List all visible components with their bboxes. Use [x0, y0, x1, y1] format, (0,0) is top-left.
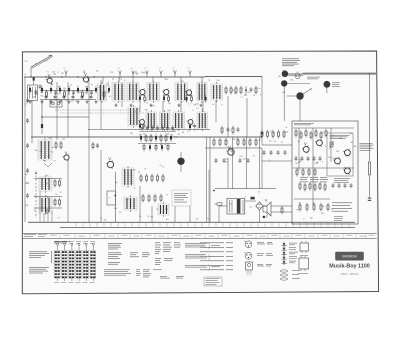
svg-text:2k2: 2k2 [62, 139, 65, 141]
resistor R40 [213, 138, 215, 147]
legend band entries [64, 235, 375, 236]
transistor T2 flag [84, 73, 86, 76]
detector parts cluster [124, 195, 137, 212]
resistor R83 [320, 203, 322, 212]
wire can lead up [180, 77, 182, 83]
resistor R52 [54, 198, 56, 207]
resistor R50 [54, 179, 56, 188]
svg-text:5n: 5n [131, 175, 133, 177]
wire twin vertical [206, 137, 209, 222]
svg-text:T4: T4 [187, 131, 189, 133]
transistor pinout top view 1 [244, 241, 252, 248]
wire vertical [88, 77, 90, 137]
transistor T6 [138, 118, 144, 125]
svg-text:0,5: 0,5 [147, 216, 149, 218]
svg-text:T4: T4 [156, 209, 158, 211]
svg-text:8p: 8p [139, 134, 141, 136]
resistor R11a [145, 134, 147, 143]
AM row lower labels [130, 130, 196, 137]
svg-text:9,1: 9,1 [131, 68, 133, 70]
wire bottom bus [28, 221, 355, 223]
diode D12 [86, 86, 88, 94]
node bus junction [77, 76, 78, 77]
resistor R20 [225, 86, 227, 95]
wire can lead up [102, 77, 104, 83]
amp wire h1 [293, 167, 354, 169]
transistor pinout top view 2 [244, 252, 252, 259]
filled dot small [261, 132, 263, 134]
svg-text:0,5: 0,5 [135, 111, 137, 113]
parts list text left 2 [29, 267, 49, 273]
wire transformer mesh v2 [246, 137, 248, 189]
electrolytic capacitor blob [177, 152, 184, 172]
resistor R12 [82, 90, 84, 99]
transistor T11 [315, 139, 322, 147]
svg-text:10k: 10k [58, 87, 61, 89]
resistor R30 [140, 174, 142, 183]
switch bank caption [54, 241, 70, 243]
svg-text:33k: 33k [130, 133, 133, 135]
svg-text:4k7: 4k7 [350, 142, 353, 144]
relay box [107, 191, 115, 205]
resistor R81 [306, 203, 308, 212]
svg-text:0,1: 0,1 [274, 141, 276, 143]
svg-text:L7: L7 [131, 181, 133, 183]
bus tap fork [145, 68, 149, 77]
top bus labels [52, 71, 175, 76]
svg-text:33k: 33k [114, 208, 117, 210]
label top-left small [25, 61, 28, 63]
switch box with circles [50, 100, 62, 107]
resistor R61 [300, 131, 302, 140]
resistor R41 [219, 138, 221, 147]
svg-text:0,1: 0,1 [60, 90, 62, 92]
svg-text:1k: 1k [55, 194, 57, 196]
resistor R51 [59, 179, 61, 188]
sub-box text [330, 135, 350, 139]
wire vertical [162, 101, 164, 112]
junction dot x115 [114, 195, 116, 197]
wire main top bus [24, 76, 205, 78]
svg-text:33k: 33k [63, 88, 66, 90]
IF transformer Fi10 [173, 110, 185, 131]
output module sub-box [327, 133, 353, 176]
svg-text:5n: 5n [344, 167, 346, 169]
svg-text:1k: 1k [75, 100, 77, 102]
resistor R33 [157, 174, 159, 183]
diode D4 [50, 86, 52, 94]
wire vertical to bus [227, 158, 229, 188]
transistor T10 [302, 145, 309, 153]
svg-text:n5: n5 [230, 204, 232, 206]
svg-text:2k2: 2k2 [247, 92, 250, 94]
amp labels [298, 131, 357, 169]
svg-text:R12: R12 [232, 90, 235, 92]
parts text col 1c [108, 262, 120, 265]
parts text col 3 [155, 243, 181, 254]
parts list heading left [29, 252, 49, 258]
capacitor left edge [26, 168, 29, 173]
svg-text:5n: 5n [237, 139, 239, 141]
svg-text:R12: R12 [40, 96, 43, 98]
svg-text:8p: 8p [52, 147, 54, 149]
svg-text:R12: R12 [336, 151, 339, 153]
pinout 2 label [257, 254, 273, 256]
capacitor CT1 [143, 123, 146, 128]
svg-text:4k7: 4k7 [166, 219, 169, 221]
front end link wire top [40, 90, 96, 92]
AM oscillator coil pack [38, 138, 52, 162]
ground [67, 100, 70, 103]
pinout 1 label [257, 242, 273, 244]
IF transformer Fi5 [175, 81, 188, 104]
boxed note [204, 277, 222, 286]
resistor R31 [146, 174, 148, 183]
svg-text:47: 47 [148, 140, 150, 142]
capacitor C31 [223, 158, 226, 163]
capacitor C33 [247, 158, 250, 163]
wire vertical [202, 101, 204, 112]
resistor R91 [267, 130, 269, 139]
amp wire v1 [298, 128, 300, 170]
diode D8 [68, 86, 70, 94]
svg-text:9,1: 9,1 [173, 68, 175, 70]
resistor R94 [283, 130, 285, 139]
junction y117 [41, 116, 43, 118]
wire vertical [246, 98, 248, 137]
capacitor C30 [215, 158, 218, 163]
resistor RT3 [168, 95, 170, 103]
wire jack link [287, 88, 327, 96]
svg-text:0,5: 0,5 [139, 216, 141, 218]
resistor R64 [315, 129, 317, 138]
capacitor CT2 [193, 124, 196, 129]
svg-text:47: 47 [162, 212, 164, 214]
resistor R43 [237, 138, 239, 147]
resistor R38 [160, 194, 162, 203]
svg-text:10k: 10k [107, 84, 110, 86]
diode symbols legend [282, 242, 288, 266]
ground [40, 100, 43, 103]
ground [199, 104, 202, 107]
right if labels [232, 88, 262, 99]
svg-text:C34: C34 [195, 104, 198, 106]
svg-text:8p: 8p [322, 132, 324, 134]
wire horizontal y117 [42, 116, 89, 118]
svg-text:4k7: 4k7 [96, 71, 99, 73]
dashed tuning line [35, 172, 37, 218]
resistor R53 [59, 198, 61, 207]
thermistor [329, 141, 334, 149]
wire vertical to bus [151, 206, 153, 222]
resistor R72 [309, 182, 311, 191]
svg-text:R12: R12 [152, 106, 155, 108]
wire AM row bus [120, 129, 210, 131]
wire vertical to bus [88, 137, 90, 222]
wire vertical [121, 101, 123, 107]
svg-text:T4: T4 [265, 201, 267, 203]
wire can lead up [132, 77, 134, 83]
label terminal A [25, 73, 27, 76]
parts row above transformer [221, 126, 240, 135]
label T1 [47, 72, 49, 74]
wire left edge vertical [24, 77, 26, 222]
amp mid row labels [296, 159, 324, 165]
bracket notes 3 [185, 265, 220, 271]
wire right margin vertical [369, 73, 371, 197]
svg-text:8p: 8p [138, 171, 140, 173]
capacitor C51 [270, 150, 273, 155]
svg-text:68: 68 [65, 100, 67, 102]
wire transformer mesh h [215, 188, 276, 190]
wire top bus right section [287, 73, 376, 75]
ferrite rod coil box [28, 85, 38, 101]
svg-text:10 m: 10 m [44, 61, 49, 63]
mains transformer [227, 198, 245, 214]
transistor T2 AF107 [82, 76, 89, 84]
transistor T8 flag [109, 158, 111, 161]
svg-text:C34: C34 [216, 80, 219, 82]
small parts row mid [92, 142, 99, 150]
transistor T7 [187, 118, 193, 125]
ground [76, 100, 79, 103]
resistor R12a [150, 134, 152, 143]
wire vertical to bus [100, 150, 102, 222]
resistor RT2 [163, 94, 165, 102]
label am range [25, 205, 28, 207]
svg-text:0,1: 0,1 [173, 130, 175, 132]
IF transformer Fi11 [197, 110, 208, 131]
svg-text:33k: 33k [33, 96, 36, 98]
svg-text:9,1: 9,1 [188, 68, 190, 70]
bracket line [51, 251, 53, 263]
resistor R73 [314, 183, 316, 192]
wire detector row 2 [139, 131, 176, 133]
IF transformer Fi2 [112, 81, 125, 104]
tuner wire 3 [34, 207, 62, 209]
svg-text:n5: n5 [225, 141, 227, 143]
resistor R23 [240, 86, 242, 95]
svg-text:L7: L7 [57, 72, 59, 74]
capacitor C15 [90, 90, 93, 95]
svg-text:Musik-Boy 1100: Musik-Boy 1100 [329, 264, 369, 270]
svg-text:0,5: 0,5 [119, 212, 121, 214]
node antenna input dot [30, 76, 31, 77]
resistor RD2 [155, 143, 157, 151]
resistor R14a [160, 134, 162, 143]
power transistor package [246, 262, 253, 276]
svg-text:33k: 33k [339, 138, 342, 140]
svg-text:33k: 33k [322, 206, 325, 208]
detector row labels [139, 133, 180, 147]
wire vertical to bus [139, 186, 141, 222]
diode D2 [41, 86, 43, 94]
resistor R46 [255, 138, 257, 147]
wire vertical [261, 76, 263, 145]
resistor RD3 [161, 143, 163, 151]
bus tap fork [64, 68, 68, 77]
ground [114, 104, 117, 107]
capacitor left edge [26, 193, 29, 198]
svg-text:L1: L1 [25, 104, 27, 106]
transistor T14 output [343, 167, 350, 175]
switch bank gridlines [53, 251, 96, 276]
transistor T3 [138, 88, 145, 96]
tone control block [158, 202, 169, 217]
svg-text:220: 220 [111, 72, 114, 74]
top right text block [282, 59, 300, 67]
capacitor CA1 [301, 156, 304, 161]
wire af feed [262, 144, 292, 146]
svg-text:L7: L7 [234, 93, 236, 95]
capacitor CD0 [141, 126, 144, 131]
svg-text:8p: 8p [169, 103, 171, 105]
amp internal top rail [293, 127, 354, 129]
IF transformer Fi3 [127, 81, 139, 104]
svg-text:T2: T2 [83, 71, 85, 73]
wire vertical to bus [209, 137, 211, 222]
resistor R69 [308, 168, 310, 177]
transistor T12 driver [343, 149, 350, 157]
diode D14 [95, 86, 97, 94]
svg-text:C34: C34 [243, 159, 246, 161]
af feed labels [269, 127, 289, 162]
resistor RD4 [167, 143, 169, 151]
IF transformer Fi4 [147, 81, 160, 104]
transistor T4 [162, 88, 169, 96]
diode D10 [77, 86, 79, 94]
capacitor C41 [338, 183, 341, 188]
svg-text:0,1: 0,1 [112, 79, 114, 81]
transistor T15 [62, 154, 69, 162]
svg-text:A1: A1 [35, 63, 37, 66]
transistor T5 [185, 89, 192, 97]
svg-text:8p: 8p [48, 155, 50, 157]
bottom right parts row [281, 206, 283, 215]
resistor R80 [299, 203, 301, 212]
wire detector row [138, 143, 176, 145]
bus labels [100, 216, 208, 222]
ground [129, 104, 132, 107]
svg-text:302: 302 [25, 61, 28, 63]
capacitor C3 [35, 90, 38, 95]
diode labels [289, 243, 298, 263]
wire vertical [56, 82, 58, 140]
fuse [214, 203, 222, 205]
jack labels block 2 [332, 83, 340, 87]
wire vertical [180, 101, 182, 112]
capacitor left edge [26, 143, 29, 148]
node bus junction [61, 76, 62, 77]
wire can lead up [201, 77, 203, 83]
resistor R34 [162, 174, 164, 183]
svg-text:(2900 · 305.00): (2900 · 305.00) [341, 272, 359, 276]
svg-text:5n: 5n [345, 155, 347, 157]
svg-text:L7: L7 [51, 90, 53, 92]
jack labels block 1 [307, 77, 320, 79]
right margin text block [360, 143, 374, 151]
svg-text:2k2: 2k2 [286, 131, 289, 133]
svg-text:2k2: 2k2 [104, 220, 107, 222]
capacitor CA3 [313, 156, 316, 161]
switch wafer S3 [69, 242, 75, 279]
resistor R13a [155, 134, 157, 142]
svg-text:1k: 1k [244, 95, 246, 97]
pickup jack open circle [295, 74, 300, 79]
wire down from jacks [284, 87, 300, 121]
wire vertical to bus [189, 206, 191, 222]
voltage table [130, 253, 150, 258]
svg-text:0,1: 0,1 [124, 80, 126, 82]
svg-text:1k: 1k [100, 218, 102, 220]
capacitor C7 [54, 90, 57, 95]
coil core legend [280, 270, 288, 280]
tuning arrow [35, 171, 37, 174]
antenna mast [31, 55, 53, 68]
svg-text:5n: 5n [253, 95, 255, 97]
socket jack J2 [281, 80, 310, 86]
capacitor CF0 [45, 95, 48, 100]
svg-text:33k: 33k [354, 146, 357, 148]
resistor R93 [278, 130, 280, 139]
resistor R74 [319, 182, 321, 191]
svg-text:8p: 8p [350, 133, 352, 135]
legend band ticks [60, 233, 366, 238]
svg-text:68: 68 [51, 84, 53, 86]
svg-text:5n: 5n [207, 218, 209, 220]
wire mid horizontal 2 [88, 129, 120, 131]
front end link wire bottom [40, 99, 96, 101]
footnote block [104, 270, 131, 276]
socket jack J3 [296, 92, 303, 99]
svg-text:5n: 5n [212, 104, 214, 106]
diode D0 [29, 86, 31, 94]
svg-text:68: 68 [35, 91, 37, 93]
svg-text:L7: L7 [136, 73, 138, 75]
svg-text:0,5: 0,5 [297, 72, 299, 74]
svg-text:68: 68 [182, 132, 184, 134]
svg-text:0,1: 0,1 [298, 141, 300, 143]
svg-text:9,1: 9,1 [118, 68, 120, 70]
mains wires [219, 201, 267, 222]
svg-text:T4: T4 [54, 160, 56, 162]
svg-text:0,5: 0,5 [109, 96, 111, 98]
node bus junction [93, 76, 94, 77]
svg-text:68: 68 [313, 203, 315, 205]
resistor R68 [302, 168, 304, 177]
wire left vertical x32 [31, 100, 33, 143]
capacitor CF1 [54, 95, 57, 100]
wire vertical [100, 80, 102, 129]
capacitor CF4 [81, 95, 84, 100]
ground [94, 100, 97, 103]
svg-text:0,1: 0,1 [40, 151, 42, 153]
resistor R32 [151, 174, 153, 183]
svg-text:L7: L7 [166, 194, 168, 196]
svg-text:R12: R12 [315, 163, 318, 165]
ground [58, 100, 61, 103]
resistor R10a [140, 134, 142, 142]
ground [149, 104, 152, 107]
svg-text:T4: T4 [281, 142, 283, 144]
IF transformer Fi1 [98, 82, 107, 103]
coil core labels [292, 270, 300, 279]
svg-text:47: 47 [58, 218, 60, 220]
capacitor C43 [350, 183, 353, 188]
diode D6 [59, 86, 61, 94]
capacitor C11 [72, 90, 75, 95]
svg-text:47: 47 [258, 191, 260, 193]
